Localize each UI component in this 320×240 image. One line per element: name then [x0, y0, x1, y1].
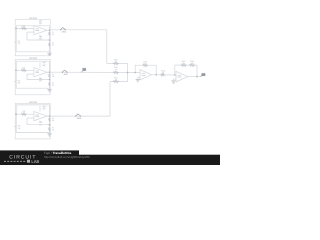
resistor Rb2 divider bottom block 2	[49, 82, 51, 86]
node summing join	[127, 72, 129, 74]
wire stage A output	[152, 74, 176, 76]
wire input row block 3	[16, 113, 34, 115]
wire stage A feedback right leg	[155, 65, 157, 75]
net flag va	[81, 71, 82, 73]
CircuitLab logo	[4, 155, 40, 164]
annotation box block 1	[15, 20, 50, 56]
label V3 value	[18, 125, 21, 130]
label R1	[22, 24, 25, 29]
ground block 3	[47, 134, 51, 136]
switch SW3	[75, 116, 76, 117]
label Ra2	[52, 73, 54, 78]
wire output stub block 1	[47, 29, 50, 31]
resistor R2 input resistor block 2	[21, 69, 27, 71]
wire summing row 3	[110, 81, 128, 83]
label R3	[22, 110, 25, 115]
resistor R16 stage B feedback resistor 2	[189, 64, 195, 66]
wire output stub block 3	[47, 115, 50, 117]
label V- supply block 3	[39, 121, 42, 126]
wire stage A + input to ground	[138, 76, 140, 78]
label title block 3	[29, 101, 37, 104]
wire block1 output run	[49, 29, 51, 31]
label R14	[161, 69, 166, 74]
svg-text:5V: 5V	[39, 22, 42, 25]
wire block3 output run	[50, 115, 111, 117]
wire input row block 1	[16, 27, 34, 29]
wire top edge block 3	[16, 104, 49, 106]
ground block 2	[47, 90, 51, 92]
wire right edge block 1	[49, 26, 51, 52]
svg-text:ideal: ideal	[142, 74, 146, 77]
wire to + input block 1	[27, 31, 34, 33]
node stage A feedback tap	[134, 72, 136, 74]
wire/source branch left edge block 3 (V3)	[15, 105, 17, 132]
label V+ supply block 3	[42, 105, 46, 110]
node stage B output junction	[196, 76, 198, 78]
ground stage B	[171, 81, 175, 83]
wire top edge block 2	[16, 60, 49, 62]
op-amp OA3	[34, 112, 47, 121]
label R2	[22, 66, 25, 71]
svg-text:ideal: ideal	[35, 115, 39, 118]
wire down from block1 to summing row 1	[106, 30, 108, 64]
node stage B feedback tap	[174, 74, 176, 76]
svg-text:5V: 5V	[43, 108, 46, 111]
wire summing row 1	[107, 63, 128, 65]
switch SW1	[60, 29, 61, 30]
op-amp OA5	[176, 71, 188, 81]
label V+ supply block 1	[39, 20, 43, 25]
op-amp OA4	[140, 70, 152, 80]
wire to + input block 3	[27, 117, 34, 119]
wire block2 output run / summing row 2	[50, 71, 141, 73]
switch SW2	[62, 72, 63, 73]
label R11	[114, 66, 118, 71]
svg-text:1k: 1k	[52, 119, 54, 122]
wire V- supply stub block 2	[39, 77, 41, 79]
wire feedback row block 1	[27, 39, 50, 41]
wire right edge block 3	[49, 105, 51, 132]
wire feedback row block 3	[27, 124, 50, 126]
wire stage B output	[188, 76, 202, 78]
label title block 1	[29, 17, 37, 20]
voltage source V1 plus sign	[14, 41, 16, 44]
voltage source V2 plus sign	[14, 81, 16, 84]
resistor R13 stage A feedback resistor	[142, 64, 148, 66]
op-amp OA1	[34, 26, 47, 35]
wire V+ supply stub block 2	[39, 62, 41, 67]
label title block 2	[29, 57, 37, 60]
wire stage A feedback left leg	[134, 65, 136, 72]
resistor R15 stage B feedback resistor 1	[180, 64, 186, 66]
svg-text:ideal: ideal	[35, 29, 39, 32]
wire bottom edge block 3	[16, 131, 49, 133]
label V- supply block 2	[39, 77, 42, 82]
wire stage B + input to ground	[174, 78, 177, 80]
node output block 1	[49, 29, 51, 31]
label Rb3	[52, 126, 54, 131]
node input tap block 1	[15, 28, 17, 30]
wire to + input block 2	[27, 73, 34, 75]
wire feedback stub block 1	[26, 32, 28, 40]
resistor R1 input resistor block 1	[21, 27, 27, 29]
wire stage B feedback top	[175, 64, 197, 66]
label Ra1	[52, 31, 54, 36]
wire V+ supply stub block 1	[39, 24, 41, 27]
resistor R3 input resistor block 3	[21, 113, 27, 115]
svg-text:1k: 1k	[52, 83, 54, 86]
node feedback tap block 3	[49, 124, 51, 126]
label V+ supply block 2	[42, 62, 46, 67]
svg-text:vout: vout	[201, 73, 205, 76]
svg-text:LAB: LAB	[31, 159, 39, 164]
node output block 3	[49, 115, 51, 117]
wire stage A feedback top	[135, 64, 156, 66]
wire ground stub block 2	[49, 88, 51, 89]
wire top edge block 1	[16, 25, 49, 27]
resistor Ra3 divider top block 3	[49, 118, 51, 122]
wire output stub block 2	[47, 71, 50, 73]
wire stage B feedback left leg	[174, 65, 176, 75]
op-amp OA2	[34, 68, 47, 77]
label Ra3	[52, 117, 54, 122]
wire V- supply stub block 1	[39, 35, 41, 37]
wire stage B feedback right leg	[196, 65, 198, 77]
svg-text:1k: 1k	[52, 33, 54, 36]
wire up from block3 to summing row 3	[109, 82, 111, 117]
wire ground stub block 3	[49, 132, 51, 133]
label V1 value	[18, 40, 21, 45]
label V- supply block 1	[39, 35, 42, 40]
wire summing join column	[127, 64, 129, 82]
voltage source V3 plus sign	[14, 126, 16, 129]
ground block 1	[47, 53, 51, 55]
resistor R12 summing resistor 3	[113, 80, 119, 82]
wire bottom edge block 2	[16, 87, 49, 89]
wire bottom edge block 1	[16, 51, 49, 53]
label Rb1	[52, 42, 54, 47]
label V2 value	[18, 80, 21, 85]
svg-text:ideal: ideal	[35, 71, 39, 74]
label R12	[114, 77, 119, 82]
footer black bar	[0, 155, 220, 165]
resistor Rb1 divider bottom block 1	[49, 42, 51, 46]
svg-text:1k: 1k	[115, 68, 117, 71]
wire feedback stub block 3	[26, 118, 28, 125]
net flag vout	[201, 75, 202, 77]
resistor R11 summing resistor 2	[113, 71, 119, 73]
node feedback tap block 1	[49, 39, 51, 41]
resistor R10 summing resistor 1	[113, 62, 119, 64]
annotation box block 3	[15, 103, 50, 138]
node output block 2	[49, 71, 51, 73]
ground stage A	[136, 80, 140, 82]
wire feedback row block 2	[27, 79, 50, 81]
wire right edge block 2	[49, 61, 51, 88]
node input tap block 3	[15, 113, 17, 115]
wire input row block 2	[16, 69, 34, 71]
node input tap block 2	[15, 70, 17, 72]
node feedback tap block 2	[49, 79, 51, 81]
wire V+ supply stub block 3	[39, 106, 41, 111]
wire V- supply stub block 3	[39, 121, 41, 123]
svg-text:ideal: ideal	[178, 76, 182, 79]
resistor R14 inter-stage resistor	[160, 74, 165, 76]
svg-text:1k: 1k	[52, 44, 54, 47]
node stage A output junction	[155, 74, 157, 76]
label R10	[114, 59, 119, 64]
wire ground stub block 1	[49, 52, 51, 53]
svg-text:1k: 1k	[52, 128, 54, 131]
svg-text:5V: 5V	[43, 64, 46, 67]
label R15 feedback	[182, 60, 187, 65]
svg-text:1k: 1k	[52, 75, 54, 78]
resistor Ra2 divider top block 2	[49, 74, 51, 78]
wire feedback stub block 2	[26, 74, 28, 80]
svg-text:http://circuitlab.com/c/g56bd4: http://circuitlab.com/c/g56bd4dy4r5b	[44, 155, 90, 159]
resistor Ra1 divider top block 1	[49, 32, 51, 36]
label R13 feedback	[143, 60, 148, 65]
wire/source branch left edge block 1 (V1)	[15, 26, 17, 52]
wire/source branch left edge block 2 (V2)	[15, 61, 17, 88]
label Rb2	[52, 81, 54, 86]
label R16 feedback	[190, 60, 195, 65]
resistor Rb3 divider bottom block 3	[49, 127, 51, 131]
annotation box block 2	[15, 60, 50, 95]
